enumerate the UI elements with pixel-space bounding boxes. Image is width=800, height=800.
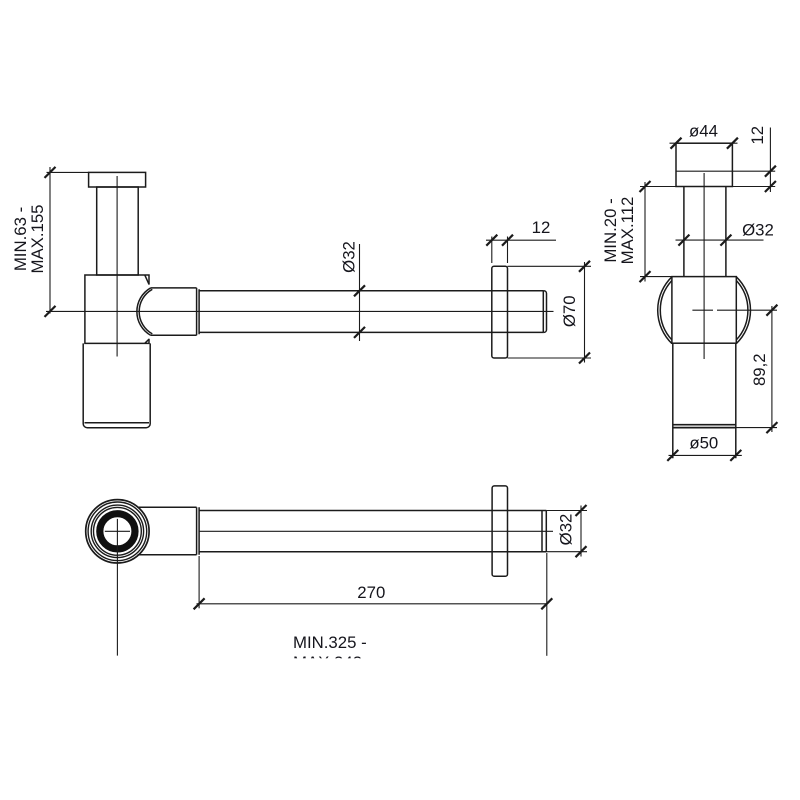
dim 12 (flange thickness): extension lines [486, 237, 556, 264]
top view: dim 270 tick right [541, 598, 552, 609]
label MIN.20 - MAX.112 [601, 197, 637, 265]
top view: center cross horizontal [105, 530, 130, 532]
top view: thick ring [100, 514, 135, 549]
front view: dim O32 tick left [678, 235, 689, 246]
dim MIN.63-MAX.155: top extension line [47, 171, 89, 173]
dim 12 (flange thickness): tick left [486, 235, 497, 246]
top view: circle 4 [94, 507, 142, 555]
label MIN.63 - MAX.155 [11, 204, 47, 273]
front view: dim 12 tick bottom [765, 181, 776, 192]
label 12 right rotated [748, 126, 767, 145]
side view: elbow nut top edge [151, 287, 197, 289]
side view: elbow nut inner arc [139, 289, 152, 334]
front view: dim MIN.20-MAX.112 extension lines [640, 187, 676, 277]
top view: wall flange [492, 486, 507, 576]
front view: dim o44 dimension line [670, 142, 738, 144]
dim MIN.63-MAX.155: dimension line [47, 167, 89, 314]
front view: inlet pipe [684, 187, 726, 277]
top view: dim 270 dimension line [197, 553, 548, 656]
top view: outer circle 2 [88, 502, 147, 561]
top view: circle 3 [91, 505, 143, 557]
side view: wall flange [492, 266, 508, 358]
side view: inlet pipe [97, 187, 139, 275]
dim O70 (flange diameter): tick bottom [579, 353, 590, 364]
svg-text:Ø32: Ø32 [557, 514, 576, 546]
front view: dim O32 dimension line [676, 239, 764, 241]
svg-text:Ø32: Ø32 [742, 221, 774, 240]
front view: ball outer arc left [658, 277, 672, 344]
front view: ball inner arc left [660, 281, 672, 340]
side view: body corner chamfer top [145, 275, 149, 284]
svg-text:89,2: 89,2 [750, 353, 769, 386]
front view: cup bottom double line [673, 425, 736, 428]
front view: dim o50 dimension line [669, 454, 742, 456]
top view: pipe end double line [542, 511, 546, 552]
svg-text:12: 12 [748, 126, 767, 145]
side view: vertical centerline [116, 176, 118, 357]
side view: horizontal pipe centerline [46, 310, 554, 312]
dim MIN.63-MAX.155: tick top [45, 167, 56, 178]
side view: horizontal pipe outline [199, 291, 543, 333]
front view: dim 12 dimension line [769, 128, 771, 193]
front view: cup sides [673, 343, 736, 458]
side view: body corner chamfer bottom [145, 339, 149, 343]
front view: ball horizontal centerline + ext for 89,2 [692, 309, 777, 311]
side view: elbow nut bottom edge [151, 334, 197, 336]
top view: dim 270 tick left [194, 598, 205, 609]
svg-text:Ø70: Ø70 [560, 295, 579, 327]
front view: dim 89,2 dimension line [736, 306, 777, 432]
top view: pipe outline [199, 511, 546, 552]
top view: dim 270 left extension line [198, 556, 200, 608]
front view: dim O32 tick right [720, 235, 731, 246]
side view: trap body [85, 275, 149, 343]
label O32 side view [340, 241, 359, 273]
svg-text:270: 270 [357, 583, 385, 602]
side view: pipe end inner line [542, 291, 544, 333]
front view: dim MIN.20-MAX.112 dimension line [640, 182, 676, 282]
top view: dim O32 tick top [576, 505, 587, 516]
front view: dim MIN.20-MAX.112 tick bottom [640, 271, 651, 282]
side view: lower cup [83, 343, 150, 427]
front view: ball outer arc right [736, 277, 750, 344]
svg-text:MAX.155: MAX.155 [28, 204, 47, 273]
front view: ball inner arc right [736, 281, 748, 340]
white crop covering bottom of clipped text [270, 658, 430, 688]
side view: elbow nut end double line [197, 288, 200, 335]
top view: nut outline [138, 507, 197, 555]
front view: dim 89,2 bottom extension line [736, 427, 777, 429]
svg-text:MIN.325 -: MIN.325 - [293, 633, 367, 652]
front view: dim 12 tick top [765, 166, 776, 177]
top view: center vertical line extended [116, 519, 118, 656]
svg-text:ø44: ø44 [689, 122, 718, 141]
front view: dim 89,2 tick bottom [766, 422, 777, 433]
label 89,2 [750, 353, 769, 386]
front view: cap bottom ext for dim 12 [732, 186, 775, 188]
front view: dim o44 tick right [727, 138, 738, 149]
top view: dim O32 tick bottom [576, 546, 587, 557]
top view: dim 270/MIN.325 right extension line [546, 553, 548, 656]
svg-text:ø50: ø50 [689, 434, 718, 453]
front view: dim o50 tick right [730, 450, 741, 461]
side view: elbow nut outer arc [137, 288, 151, 336]
dim MIN.63-MAX.155: tick bottom [45, 306, 56, 317]
front view: cap [676, 143, 732, 186]
front view: dim 89,2 tick top [766, 305, 777, 316]
svg-text:MAX.112: MAX.112 [618, 197, 637, 265]
svg-text:Ø32: Ø32 [340, 241, 359, 273]
dim O32 (side view pipe): tick bottom [354, 327, 365, 338]
label O32 top view [557, 514, 576, 546]
top view: dim O32 dimension line [580, 506, 582, 557]
dim 12 (flange thickness): tick right [502, 235, 513, 246]
label O70 [560, 295, 579, 327]
dim O70 (flange diameter): tick top [579, 261, 590, 272]
dim O32 (side view pipe): tick top [354, 285, 365, 296]
front view: ball body rect [672, 277, 736, 344]
side view: inlet cap [89, 172, 146, 187]
top view: dim O32 extension lines [546, 506, 587, 557]
dim O32 (side view pipe): dimension line [359, 244, 361, 341]
front view: dim MIN.20-MAX.112 tick top [640, 181, 651, 192]
dim 12 (flange thickness): dimension line [486, 239, 556, 241]
dim O70 (flange diameter): extension lines [508, 262, 592, 363]
front view: dim o44 tick left [671, 138, 682, 149]
dim O70 (flange diameter): dimension line [584, 262, 586, 363]
top view: pipe centerline [199, 530, 553, 532]
front view: dim o50 tick left [667, 450, 678, 461]
side view: pipe end rounded cap [543, 291, 546, 333]
side view: cup bottom inner line [85, 422, 150, 424]
top view: outer circle 1 [86, 500, 149, 563]
front view: cap inner line + ext for dim 12 [676, 170, 775, 172]
svg-text:12: 12 [532, 218, 551, 237]
top view: nut end double line [197, 507, 200, 555]
front view: vertical centerline [703, 173, 705, 359]
